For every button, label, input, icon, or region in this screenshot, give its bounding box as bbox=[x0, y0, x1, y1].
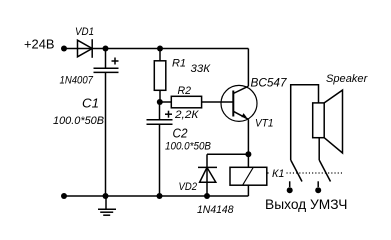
wire junction to R2 bbox=[160, 101, 171, 103]
svg-text:К1: К1 bbox=[272, 168, 285, 180]
speaker bbox=[313, 90, 343, 153]
wire top rail bbox=[91, 48, 249, 50]
wire junction to relay K1 coil bbox=[247, 154, 249, 167]
wire C1 to bottom rail bbox=[105, 72, 107, 196]
svg-text:33К: 33К bbox=[191, 63, 211, 75]
svg-text:Выход УМЗЧ: Выход УМЗЧ bbox=[265, 196, 348, 212]
node 0V input terminal bbox=[61, 193, 67, 199]
svg-text:1N4007: 1N4007 bbox=[60, 75, 94, 87]
svg-text:C1: C1 bbox=[82, 96, 99, 111]
svg-text:VD1: VD1 bbox=[75, 26, 94, 38]
wire terminal to VD1 anode bbox=[64, 48, 91, 50]
wire emitter down bbox=[247, 119, 249, 154]
svg-text:C2: C2 bbox=[173, 126, 189, 141]
svg-text:Speaker: Speaker bbox=[326, 73, 369, 85]
ground bbox=[98, 196, 116, 215]
resistor R2 bbox=[171, 96, 201, 108]
transistor VT1 bbox=[221, 85, 257, 121]
wire junction to C2 bbox=[159, 102, 161, 120]
wire C2 to bottom rail bbox=[159, 124, 161, 196]
svg-text:R1: R1 bbox=[172, 58, 186, 70]
contact K1.1 lower terminal bbox=[289, 181, 291, 187]
svg-text:1N4148: 1N4148 bbox=[197, 204, 234, 216]
wire relay to bottom rail bbox=[247, 185, 249, 196]
svg-text:VT1: VT1 bbox=[255, 118, 274, 130]
svg-text:VD2: VD2 bbox=[179, 181, 198, 193]
resistor R1 bbox=[154, 61, 166, 91]
svg-text:BC547: BC547 bbox=[251, 76, 288, 90]
svg-text:100.0*50В: 100.0*50В bbox=[165, 141, 211, 153]
wire junction to VD2 bbox=[207, 153, 248, 155]
node junction C1/top rail bbox=[103, 46, 109, 52]
wire speaker bottom to right contact bbox=[318, 138, 320, 160]
wire bottom rail bbox=[64, 195, 248, 197]
relay K1 coil bbox=[230, 167, 267, 185]
wire top rail to C1 bbox=[105, 49, 107, 69]
svg-text:R2: R2 bbox=[178, 85, 192, 97]
node junction R1/top rail bbox=[157, 46, 163, 52]
node junction C2/bottom rail bbox=[157, 193, 163, 199]
contact K1.2 arm bbox=[319, 160, 330, 182]
node junction C1/bottom rail bbox=[103, 193, 109, 199]
node base junction bbox=[157, 99, 163, 105]
contact K1.1 arm bbox=[291, 160, 302, 182]
wire R1 bottom lead bbox=[159, 90, 161, 102]
node emitter junction bbox=[245, 151, 251, 157]
svg-text:2,2К: 2,2К bbox=[174, 109, 199, 121]
contact K1.2 lower terminal bbox=[317, 181, 319, 187]
diode VD2 bbox=[198, 167, 217, 182]
node junction VD2/bottom rail bbox=[204, 193, 210, 199]
wire dotted mechanical link K1 bbox=[268, 172, 343, 174]
node +24V input terminal bbox=[61, 46, 67, 52]
diode VD1 bbox=[78, 39, 93, 58]
svg-text:+24В: +24В bbox=[24, 37, 55, 52]
wire speaker top to left contact bbox=[291, 85, 319, 160]
wire R1 top lead bbox=[159, 49, 161, 61]
capacitor C1 bbox=[94, 58, 119, 73]
wire R2 to base bbox=[202, 101, 234, 103]
capacitor C2 bbox=[147, 111, 173, 125]
svg-text:100.0*50В: 100.0*50В bbox=[53, 115, 104, 127]
wire collector to top rail bbox=[247, 49, 249, 87]
